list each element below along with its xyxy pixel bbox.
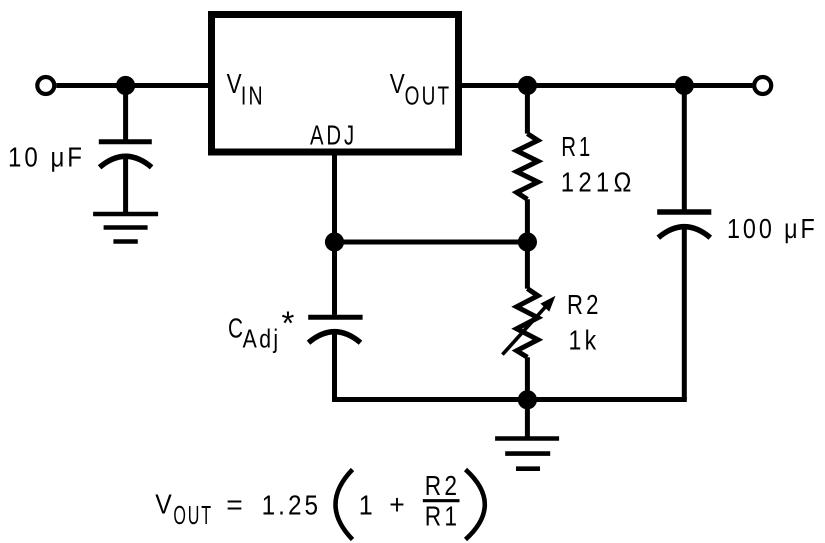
wire ADJ stub (332, 152, 337, 242)
wire ADJ to R1/R2 node (335, 240, 528, 245)
wire C_adj top lead (332, 242, 337, 315)
svg-text:V: V (155, 488, 172, 519)
wire C_adj bottom lead (332, 332, 337, 402)
ground G2 (495, 439, 559, 469)
svg-text:IN: IN (241, 81, 265, 111)
node ADJ junction (325, 232, 344, 251)
label C_Adj* (228, 304, 295, 353)
svg-text:ADJ: ADJ (310, 120, 357, 151)
svg-text:R2: R2 (567, 289, 602, 320)
svg-text:*: * (282, 304, 295, 341)
capacitor C_in 10uF (99, 142, 152, 168)
wire regulator output (462, 83, 752, 88)
potentiometer R2 (502, 289, 555, 358)
svg-text:10 μF: 10 μF (8, 141, 85, 172)
regulator U1 box (212, 15, 459, 153)
wire input cap bottom lead (123, 157, 128, 215)
svg-text:C: C (228, 313, 243, 344)
wire bottom rail (332, 397, 687, 402)
wire R1 top lead (525, 86, 530, 134)
wire R2 bottom lead (525, 357, 530, 399)
equation VOUT = 1.25 (1 + R2/R1) (155, 470, 485, 540)
svg-text:Adj: Adj (243, 323, 281, 353)
svg-text:R1: R1 (561, 131, 593, 162)
svg-text:121Ω: 121Ω (561, 166, 636, 197)
wire C_out top lead (682, 86, 687, 210)
wire R1 bottom lead (525, 199, 530, 242)
input terminal (37, 77, 54, 94)
svg-text:+: + (389, 489, 405, 520)
resistor R1 (517, 134, 538, 200)
svg-text:OUT: OUT (405, 81, 452, 111)
pin label VOUT (390, 68, 452, 111)
node output junction C_out (675, 76, 694, 95)
svg-text:100 μF: 100 μF (727, 213, 818, 244)
svg-text:=: = (226, 489, 243, 520)
node input junction (116, 76, 135, 95)
ground G1 (93, 214, 158, 242)
svg-text:R2: R2 (425, 470, 461, 501)
wire R2 top lead (525, 242, 530, 289)
svg-text:1: 1 (359, 489, 373, 520)
pin label VIN (227, 68, 265, 111)
wire input to regulator (56, 83, 211, 88)
output terminal (754, 77, 771, 94)
capacitor C_out 100uF (657, 212, 711, 238)
svg-text:1k: 1k (569, 324, 600, 355)
node R1/R2 junction (518, 232, 537, 251)
wire input cap top lead (123, 86, 128, 140)
svg-text:V: V (227, 68, 242, 99)
svg-text:1.25: 1.25 (262, 489, 322, 520)
svg-text:V: V (390, 68, 405, 99)
wire C_out bottom lead (682, 227, 687, 400)
capacitor C_Adj (308, 317, 362, 343)
wire ground stem (525, 400, 530, 439)
svg-text:R1: R1 (425, 501, 461, 532)
node ground junction (518, 390, 537, 409)
svg-text:OUT: OUT (173, 500, 213, 530)
node output junction R1 (518, 76, 537, 95)
